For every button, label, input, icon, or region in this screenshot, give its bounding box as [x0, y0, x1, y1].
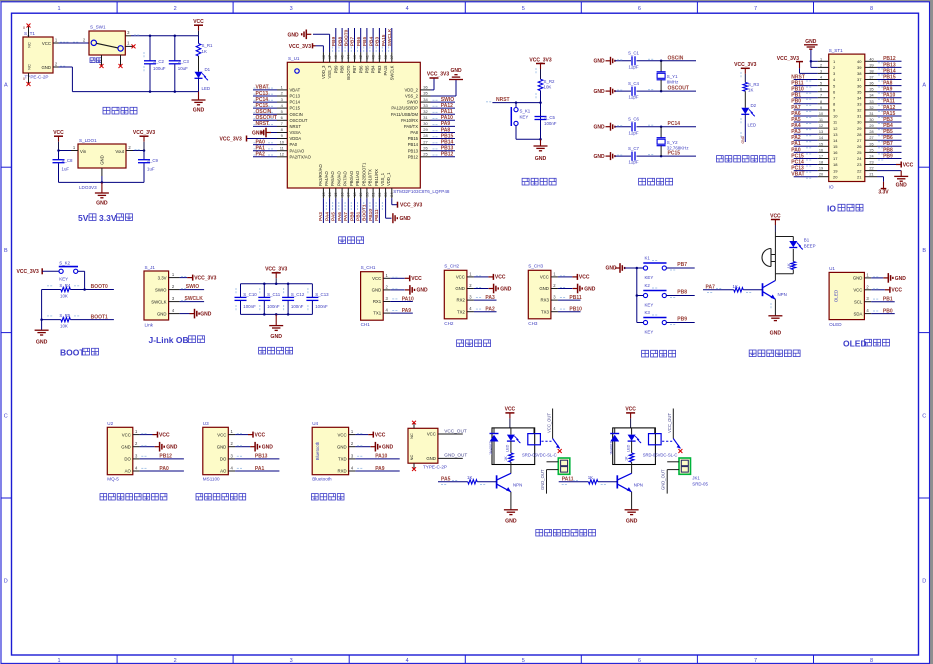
svg-text:PA2: PA2: [256, 152, 266, 158]
S_CH1 pin4 PA9: [383, 308, 413, 314]
svg-text:100nF: 100nF: [291, 304, 304, 309]
mcu top pin 38 PA15: [381, 28, 388, 75]
wire runled: [744, 91, 746, 108]
svg-text:6: 6: [820, 88, 822, 92]
header right pin 36: [857, 81, 901, 89]
header left pin 12: [791, 123, 838, 131]
svg-text:D: D: [4, 579, 8, 585]
svg-text:S_C6: S_C6: [628, 117, 640, 122]
svg-text:VSS_1: VSS_1: [380, 172, 385, 186]
relay emitter ground PA5: [504, 492, 518, 525]
capacitor S_C7 12pF row PC15: [594, 146, 697, 165]
svg-text:PB7: PB7: [883, 141, 893, 147]
svg-text:17: 17: [833, 156, 838, 161]
svg-text:PB8: PB8: [883, 147, 893, 153]
svg-text:GND_OUT: GND_OUT: [444, 453, 467, 458]
svg-text:BOOT0: BOOT0: [346, 65, 351, 80]
svg-text:27: 27: [857, 138, 862, 143]
svg-text:PB15: PB15: [408, 136, 419, 141]
svg-text:PA0: PA0: [256, 139, 266, 145]
svg-text:S_K2: S_K2: [59, 260, 70, 265]
svg-text:PB9: PB9: [677, 317, 687, 323]
svg-text:PC15: PC15: [668, 151, 681, 157]
header right pin 37: [857, 74, 901, 82]
mcu left pin 5 OSCIN: [253, 109, 303, 117]
connector S_CH2: [444, 264, 467, 326]
svg-text:PA3/RX/AO: PA3/RX/AO: [318, 163, 323, 186]
flyback diode 1N4007 PA11: [610, 428, 620, 465]
svg-text:VSSA: VSSA: [290, 130, 301, 135]
header right pin 26: [857, 141, 901, 149]
svg-text:GND: GND: [500, 286, 512, 292]
mcu left pin 4 PC15: [253, 103, 301, 111]
svg-text:VCC: VCC: [853, 288, 862, 293]
svg-text:PB2/BOOT1: PB2/BOOT1: [361, 162, 366, 186]
wire VCC_OUT: [438, 428, 467, 434]
svg-text:22: 22: [857, 168, 862, 173]
svg-text:PA5/AO: PA5/AO: [330, 170, 335, 186]
svg-text:24: 24: [869, 155, 873, 159]
svg-text:PB10/TX: PB10/TX: [368, 169, 373, 186]
jlink pin 1 VCC_3V3: [169, 272, 217, 281]
svg-text:LED: LED: [748, 123, 757, 128]
svg-text:PA15: PA15: [381, 34, 387, 46]
oled pin3 SCL PB1: [864, 296, 894, 302]
svg-text:D: D: [922, 579, 926, 585]
svg-text:47: 47: [327, 54, 332, 59]
svg-text:BOOT: BOOT: [60, 348, 85, 358]
mcu bottom pin 14 PA4/AO: [324, 170, 333, 223]
svg-text:PB9: PB9: [331, 37, 337, 47]
svg-text:10: 10: [833, 114, 838, 119]
svg-text:NC: NC: [409, 433, 414, 439]
S_CH3 pin4 PB10: [551, 306, 582, 312]
svg-text:PB6: PB6: [358, 65, 363, 74]
caption 5V转3.3V电路: [78, 213, 133, 223]
svg-text:PC13: PC13: [791, 166, 804, 172]
svg-text:GND: GND: [606, 266, 618, 272]
caption J-Link OB接口: [149, 335, 205, 345]
svg-text:PB1: PB1: [791, 93, 801, 99]
svg-text:PA11: PA11: [441, 109, 453, 115]
svg-text:NPN: NPN: [513, 482, 522, 487]
svg-text:PB7: PB7: [677, 262, 687, 268]
svg-text:30: 30: [857, 120, 862, 125]
LED alarm: [789, 241, 803, 250]
svg-text:VDD_3: VDD_3: [321, 65, 326, 79]
svg-text:VCC_3V3: VCC_3V3: [777, 56, 799, 62]
svg-text:GND: GND: [584, 286, 596, 292]
display U1 OLED: [829, 266, 864, 327]
capacitor S_C4 12pF row OSCOUT: [594, 81, 697, 100]
svg-text:33: 33: [423, 103, 428, 108]
svg-text:K1: K1: [645, 256, 651, 261]
svg-text:PB8: PB8: [337, 37, 343, 47]
svg-text:37: 37: [857, 77, 862, 82]
svg-text:BEEP: BEEP: [804, 243, 816, 248]
mcu bottom pin 23 VSS_1: [380, 172, 388, 198]
svg-text:1K: 1K: [787, 263, 792, 268]
svg-text:TXD: TXD: [338, 457, 347, 462]
svg-text:1K: 1K: [748, 88, 753, 93]
header right pin 35: [857, 87, 901, 95]
module U3 MS1100: [203, 421, 229, 482]
pushbutton S_K2 KEY: [59, 260, 78, 281]
svg-text:U4: U4: [312, 421, 318, 426]
svg-text:GND: GND: [770, 331, 782, 337]
connector S_J1 Link: [144, 265, 169, 328]
svg-text:12: 12: [280, 152, 285, 157]
svg-text:19: 19: [833, 168, 838, 173]
power VCC_3V3 at mcu VDDA: [220, 136, 278, 143]
svg-text:GND_OUT: GND_OUT: [540, 469, 545, 490]
mcu right pin 30 PA9/TX: [404, 121, 455, 129]
power port VCC ldo: [53, 130, 64, 151]
power 3.3V header pin21: [877, 177, 889, 196]
header left pin 17: [791, 153, 838, 161]
svg-text:S_R5: S_R5: [59, 313, 71, 318]
svg-text:PB0/AO: PB0/AO: [349, 170, 354, 186]
svg-text:27: 27: [423, 139, 428, 144]
svg-text:100nF: 100nF: [315, 304, 328, 309]
caption OLED显示屏: [843, 339, 890, 349]
svg-text:U3: U3: [203, 421, 209, 426]
svg-text:17: 17: [819, 155, 823, 159]
mcu bottom pin 24 VDD_1: [386, 172, 394, 198]
svg-text:VCC_3V3: VCC_3V3: [400, 203, 422, 209]
net label PA11 and base resistor 1K: [559, 475, 618, 485]
svg-text:PA10: PA10: [441, 115, 453, 121]
svg-text:GND: GND: [741, 135, 745, 143]
svg-text:PC15: PC15: [256, 103, 269, 109]
svg-text:S_LDO1: S_LDO1: [79, 138, 97, 143]
mcu left pin 6 OSCOUT: [253, 115, 308, 123]
svg-text:100nF: 100nF: [544, 121, 557, 126]
capacitor S_C11 100nF filter: [258, 284, 280, 315]
header right pin 25: [857, 147, 901, 155]
header right pin 39: [857, 62, 901, 70]
svg-text:PA11: PA11: [883, 99, 895, 105]
S_CH1 pin1 VCC: [383, 273, 422, 282]
capacitor S_C10 100nF filter: [235, 284, 258, 315]
caption IO拓展口: [827, 204, 863, 214]
svg-text:28: 28: [869, 130, 873, 134]
mcu bottom pin 16 PA6/AO: [337, 170, 346, 223]
svg-text:40: 40: [371, 54, 376, 59]
svg-text:PA7/AO: PA7/AO: [343, 170, 348, 186]
svg-text:S_CH2: S_CH2: [444, 264, 459, 269]
svg-text:S_Y2: S_Y2: [667, 140, 678, 145]
svg-text:S_R2: S_R2: [544, 79, 556, 84]
mcu right pin 27 PB14: [408, 139, 455, 147]
svg-text:PB1/AO: PB1/AO: [355, 170, 360, 186]
power VCC_3V3 at mcu VDD_3: [289, 43, 324, 52]
svg-text:10K: 10K: [60, 294, 68, 299]
svg-text:SRD-05VDC-SL-C: SRD-05VDC-SL-C: [643, 452, 678, 457]
svg-text:PA4: PA4: [324, 212, 330, 221]
svg-text:VCC: VCC: [579, 275, 590, 281]
svg-text:43: 43: [352, 54, 357, 59]
resistor S_R1 1K: [196, 36, 213, 72]
svg-text:12pF: 12pF: [629, 160, 639, 165]
svg-text:VCC: VCC: [505, 407, 516, 413]
svg-text:28: 28: [857, 132, 862, 137]
header right pin 24: [857, 153, 901, 161]
svg-text:28: 28: [423, 133, 428, 138]
svg-text:27: 27: [869, 136, 873, 140]
svg-text:NC: NC: [27, 64, 32, 70]
resistor 1K alarm: [787, 262, 796, 270]
svg-text:32: 32: [869, 106, 873, 110]
mcu top pin 39 PB3: [375, 28, 382, 73]
svg-text:PC14: PC14: [290, 100, 301, 105]
svg-text:35: 35: [857, 89, 862, 94]
terminal block connector PA5: [540, 458, 570, 494]
capacitor S_C13 100nF filter: [306, 284, 329, 315]
svg-text:VCC: VCC: [456, 275, 465, 280]
svg-text:20: 20: [364, 192, 369, 197]
mcu bottom pin 17 PA7/AO: [343, 170, 352, 223]
S_CH3 pin2 GND: [551, 283, 596, 293]
svg-text:PA10: PA10: [375, 454, 387, 460]
svg-text:PB10: PB10: [368, 209, 374, 221]
net label BOOT0: [91, 284, 108, 290]
svg-text:CH1: CH1: [361, 322, 371, 327]
svg-text:C: C: [922, 413, 926, 419]
svg-text:31: 31: [869, 112, 873, 116]
svg-text:VCC: VCC: [903, 162, 914, 168]
mcu right pin 26 PB13: [408, 145, 455, 153]
svg-text:16: 16: [833, 150, 838, 155]
svg-text:GND: GND: [96, 201, 108, 207]
S_CH1 pin3 PA10: [383, 296, 414, 302]
svg-text:16: 16: [819, 148, 823, 152]
wire LDO gnd pin: [101, 168, 104, 184]
ground GND at mcu VSSA: [252, 128, 277, 138]
svg-text:GND: GND: [193, 108, 205, 114]
svg-text:KEY: KEY: [520, 115, 529, 120]
svg-text:12pF: 12pF: [629, 95, 639, 100]
svg-text:GND_OUT: GND_OUT: [661, 469, 666, 490]
net label PA5 and base resistor 1K: [438, 475, 497, 485]
header right pin 28: [857, 129, 901, 137]
svg-text:BOOT0: BOOT0: [91, 284, 108, 290]
svg-text:GND: GND: [455, 286, 465, 291]
svg-text:18: 18: [352, 192, 357, 197]
svg-text:GND: GND: [100, 155, 105, 165]
header left pin 20: [791, 172, 838, 180]
relay coil SRD-05VDC-SL-C PA5: [522, 428, 557, 457]
ground GND header pin22: [877, 171, 908, 189]
svg-text:GND: GND: [372, 288, 382, 293]
svg-text:PB6: PB6: [883, 135, 893, 141]
svg-text:GND: GND: [157, 311, 167, 316]
svg-text:38: 38: [869, 69, 873, 73]
mcu top pin 46 PB9: [331, 28, 338, 73]
svg-text:PA11/USB/DM: PA11/USB/DM: [391, 112, 419, 117]
svg-text:PB1: PB1: [356, 211, 362, 221]
svg-text:OSCIN: OSCIN: [290, 112, 303, 117]
svg-text:VCC_3V3: VCC_3V3: [529, 57, 551, 63]
mcu bottom pin 21 PB10/TX: [368, 169, 377, 223]
oled pin2 VCC: [864, 284, 902, 293]
header S_ST1 40-pin: [829, 48, 865, 190]
svg-text:PB10: PB10: [569, 307, 582, 313]
svg-text:VBAT: VBAT: [256, 85, 269, 91]
regulator S_LDO1 LDO3V3: [78, 138, 126, 190]
svg-text:KEY: KEY: [645, 330, 654, 335]
svg-text:GND: GND: [288, 33, 300, 39]
svg-text:S_SW1: S_SW1: [90, 25, 106, 30]
svg-text:GND: GND: [594, 125, 606, 131]
svg-text:NRST: NRST: [256, 121, 270, 127]
mcu left pin 3 PC14: [253, 97, 301, 105]
svg-text:39: 39: [869, 63, 873, 67]
svg-text:12pF: 12pF: [629, 130, 639, 135]
svg-text:PA7: PA7: [343, 212, 349, 221]
svg-text:S_C10: S_C10: [243, 292, 257, 297]
S_CH2 pin4 PA2: [467, 306, 497, 312]
svg-text:GND: GND: [417, 288, 429, 294]
svg-text:S_C2: S_C2: [153, 59, 165, 64]
header left pin 14: [791, 135, 838, 143]
svg-text:100nF: 100nF: [267, 304, 280, 309]
svg-text:4: 4: [406, 6, 409, 12]
svg-text:S_R1: S_R1: [202, 43, 214, 48]
svg-text:S_R4: S_R4: [59, 283, 71, 288]
svg-text:S_C4: S_C4: [628, 81, 640, 86]
svg-text:PB5: PB5: [365, 65, 370, 74]
crystal S_Y2 32.768KHz: [657, 127, 689, 156]
svg-text:VCC_3V3: VCC_3V3: [734, 62, 756, 68]
svg-text:32.768KHz: 32.768KHz: [667, 145, 689, 150]
mcu left pin 11 PA1/AO: [253, 145, 305, 153]
svg-text:A: A: [4, 83, 8, 89]
svg-text:15: 15: [333, 192, 338, 197]
svg-text:25: 25: [423, 152, 428, 157]
svg-text:D1: D1: [205, 67, 211, 72]
capacitor S_C3 10uF: [169, 36, 190, 92]
filter rails: [241, 283, 313, 316]
svg-text:VCC_3V3: VCC_3V3: [220, 136, 242, 142]
alarm emitter to ground: [768, 299, 782, 336]
svg-text:Vin: Vin: [80, 149, 87, 154]
svg-text:VCC: VCC: [42, 41, 51, 46]
LED D1: [195, 67, 211, 92]
transistor NPN relay PA11: [617, 465, 643, 492]
svg-text:34: 34: [857, 95, 862, 100]
svg-text:PA6: PA6: [337, 212, 343, 221]
svg-text:VCC_3V3: VCC_3V3: [265, 267, 287, 273]
header left pin 9: [791, 105, 836, 113]
svg-text:SRD-05: SRD-05: [692, 482, 708, 487]
svg-text:NPN: NPN: [778, 292, 787, 297]
svg-text:VCC_OUT: VCC_OUT: [546, 413, 551, 433]
caption 主芯片: [339, 237, 364, 244]
caption 复位电路: [522, 178, 556, 185]
svg-text:PB12: PB12: [408, 154, 419, 159]
svg-text:PB12: PB12: [159, 454, 172, 460]
svg-text:1K: 1K: [202, 49, 207, 54]
module U2 MQ-5: [107, 421, 133, 482]
header left pin 2: [818, 63, 836, 70]
svg-text:0: 0: [23, 26, 25, 30]
header right pin 23: [857, 161, 877, 168]
svg-text:8MHz: 8MHz: [667, 80, 678, 85]
pushbutton K3 KEY: [637, 310, 695, 335]
mcu left pin 10 PA0: [253, 139, 298, 147]
switch pin 1 no-connect: [125, 41, 135, 49]
svg-text:PB6: PB6: [356, 37, 362, 47]
svg-text:GND: GND: [626, 519, 638, 525]
svg-text:IO: IO: [829, 185, 834, 190]
svg-text:S_C5: S_C5: [544, 115, 556, 120]
svg-text:VCC_3V3: VCC_3V3: [289, 44, 311, 50]
svg-text:5: 5: [820, 82, 822, 86]
svg-text:35: 35: [869, 88, 873, 92]
header left pin 11: [791, 117, 838, 125]
svg-text:K2: K2: [645, 283, 651, 288]
capacitor S_C12 100nF filter: [282, 284, 305, 315]
svg-text:SWCLK: SWCLK: [387, 28, 393, 46]
mcu right pin 32 PA11/USB/DM: [391, 109, 455, 117]
svg-text:2: 2: [174, 6, 177, 12]
svg-text:KEY: KEY: [645, 275, 654, 280]
power VCC_3V3 filter: [265, 267, 287, 284]
svg-text:B: B: [922, 248, 926, 254]
svg-text:PB3: PB3: [883, 117, 893, 123]
wire LED net: [741, 114, 756, 143]
svg-text:VBAT: VBAT: [791, 172, 804, 178]
svg-text:RX3: RX3: [541, 298, 550, 303]
svg-text:KEY: KEY: [59, 276, 68, 281]
svg-text:PA2/TX/AO: PA2/TX/AO: [290, 154, 312, 159]
caption 继电器控制电路: [536, 530, 596, 537]
keys left rail: [636, 267, 639, 323]
svg-text:BOOT1: BOOT1: [91, 314, 108, 320]
svg-text:VSS_2: VSS_2: [405, 94, 419, 99]
svg-text:8: 8: [820, 100, 822, 104]
power VCC relay PA11: [625, 407, 636, 428]
indicator LED PA11: [626, 428, 641, 452]
caption 串口电路: [457, 340, 491, 347]
svg-text:1K: 1K: [625, 456, 629, 461]
svg-text:39: 39: [857, 65, 862, 70]
svg-text:PA6/AO: PA6/AO: [337, 170, 342, 186]
mcu right pin 33 PA12/USB/DP: [391, 103, 455, 111]
svg-text:PA9: PA9: [441, 121, 451, 127]
mcu top pin 37 SWCLK: [387, 28, 394, 80]
svg-text:S_CH3: S_CH3: [528, 264, 543, 269]
svg-text:12: 12: [819, 124, 823, 128]
power VCC_3V3 at mcu VDD_1: [392, 198, 423, 209]
svg-text:U1: U1: [829, 266, 835, 271]
svg-text:PB9: PB9: [333, 65, 338, 74]
ground GND ldo: [95, 182, 109, 206]
svg-text:15: 15: [833, 144, 838, 149]
svg-text:25: 25: [857, 150, 862, 155]
svg-text:20: 20: [819, 173, 823, 177]
svg-text:1: 1: [57, 6, 60, 12]
svg-text:24: 24: [389, 192, 394, 197]
svg-text:B: B: [4, 248, 8, 254]
mcu right pin 35 VSS_2: [405, 91, 431, 99]
svg-text:4: 4: [406, 658, 409, 664]
svg-text:VCC: VCC: [372, 276, 381, 281]
mcu right pin 34 SWIO: [407, 97, 455, 105]
svg-text:DO: DO: [124, 457, 131, 462]
header left pin 16: [791, 147, 838, 155]
